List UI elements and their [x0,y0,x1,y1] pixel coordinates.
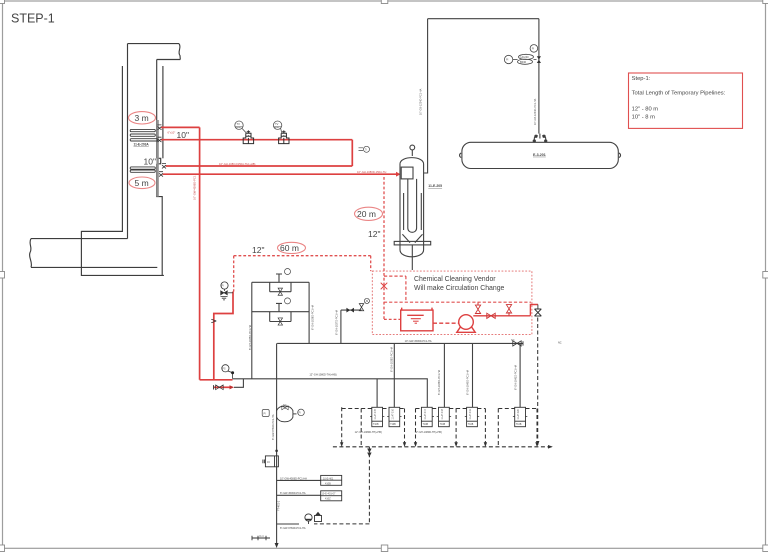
svg-text:410B: 410B [325,482,331,485]
svg-text:10"-GB-1234D-PC1-HA: 10"-GB-1234D-PC1-HA [534,98,537,125]
svg-text:3 m: 3 m [135,113,149,123]
svg-text:T10B: T10B [373,424,379,426]
svg-text:HC240: HC240 [521,55,530,59]
svg-text:Will make Circulation Change: Will make Circulation Change [414,285,505,292]
svg-text:10"-GW-4506D-PC1-HA: 10"-GW-4506D-PC1-HA [405,340,432,343]
svg-text:11-AT-018: 11-AT-018 [441,408,444,419]
svg-text:6"-GH-1039D-PC1-HA: 6"-GH-1039D-PC1-HA [438,370,441,395]
svg-text:11-AT-017: 11-AT-017 [424,408,427,419]
svg-text:11-AT-020: 11-AT-020 [517,408,520,419]
svg-text:PI: PI [264,412,267,415]
svg-text:12": 12" [252,245,264,255]
svg-text:16: 16 [267,461,270,464]
svg-text:10"-GW-4506D-PC1: 10"-GW-4506D-PC1 [193,175,197,200]
svg-text:NC: NC [558,342,562,345]
svg-text:0041: 0041 [274,127,280,129]
svg-text:8"-GW-9784D-PC1-HA: 8"-GW-9784D-PC1-HA [280,527,306,530]
svg-text:8"-GW-4506D-PC1-HA: 8"-GW-4506D-PC1-HA [280,492,306,495]
svg-text:11-AT-016: 11-AT-016 [391,408,394,419]
svg-text:10": 10" [177,130,189,140]
svg-text:11-E-203A: 11-E-203A [134,142,150,146]
svg-text:E-3-201: E-3-201 [533,153,546,157]
svg-text:6"-GH-1036D-PC1-HA: 6"-GH-1036D-PC1-HA [311,305,314,330]
svg-text:12"-GH-1080D-TH(+HB): 12"-GH-1080D-TH(+HB) [309,373,336,376]
svg-text:B040: B040 [520,60,527,64]
svg-text:6"-GH-1038D-PC1-HA: 6"-GH-1038D-PC1-HA [391,347,394,372]
svg-text:6"-GH-1035D-PC1-HA: 6"-GH-1035D-PC1-HA [249,325,252,350]
svg-text:12": 12" [368,229,380,239]
svg-text:10" - 8 m: 10" - 8 m [632,114,655,120]
svg-text:PS: PS [222,367,226,370]
svg-text:10"-GH-1080-D150A-TH(+HB): 10"-GH-1080-D150A-TH(+HB) [219,162,256,166]
svg-text:T10B: T10B [390,424,396,426]
svg-text:PI: PI [222,285,225,288]
svg-text:12"-GH-1080D-TH(+HB): 12"-GH-1080D-TH(+HB) [355,431,382,434]
svg-text:60 m: 60 m [280,243,299,253]
svg-text:T10B: T10B [440,424,446,426]
svg-text:11-AT-019: 11-AT-019 [469,408,472,419]
svg-text:TV: TV [237,122,241,126]
svg-text:8"-GW-9784D-PC1-HA: 8"-GW-9784D-PC1-HA [272,414,275,440]
svg-text:10-E-401: 10-E-401 [323,477,334,480]
svg-text:10"-GH-1080D-150A-TH: 10"-GH-1080D-150A-TH [357,170,386,174]
svg-text:6"x10": 6"x10" [168,131,176,135]
svg-text:6"-GH-1040D-PC1-HA: 6"-GH-1040D-PC1-HA [467,370,470,395]
svg-text:10"-GW-4506D-PC1-HA: 10"-GW-4506D-PC1-HA [280,477,307,480]
svg-text:11-AT-015: 11-AT-015 [374,408,377,419]
svg-text:Total Length of Temporary Pipe: Total Length of Temporary Pipelines: [632,91,726,97]
svg-text:PI: PI [506,59,509,62]
svg-text:0040: 0040 [236,127,242,129]
svg-text:12" - 80 m: 12" - 80 m [632,107,659,113]
svg-text:12"-GH-1080D-TH(+HB): 12"-GH-1080D-TH(+HB) [415,431,442,434]
svg-text:6"-GH-1041D-PC1-HA: 6"-GH-1041D-PC1-HA [515,365,518,390]
svg-text:TI: TI [365,148,368,151]
svg-text:FT-401-1: FT-401-1 [277,500,280,511]
svg-text:NC: NC [511,339,515,342]
svg-text:NC: NC [283,404,287,407]
svg-text:20 m: 20 m [357,209,376,219]
svg-text:T10B: T10B [423,424,429,426]
svg-text:10"-GB-1234D-PC1-HA: 10"-GB-1234D-PC1-HA [420,88,423,115]
svg-text:10": 10" [144,157,156,167]
svg-text:D-4: D-4 [260,535,265,538]
svg-text:TV: TV [275,122,279,126]
svg-text:PI: PI [532,47,535,50]
svg-text:STEP-1: STEP-1 [11,12,55,26]
svg-text:10-E-401-07: 10-E-401-07 [322,493,337,496]
svg-text:11-E-205: 11-E-205 [428,184,442,188]
svg-text:6"-GH-1037D-PC1-HA: 6"-GH-1037D-PC1-HA [335,310,338,335]
svg-text:T10B: T10B [468,424,474,426]
svg-text:Step-1:: Step-1: [632,76,651,82]
svg-text:Chemical Cleaning Vendor: Chemical Cleaning Vendor [414,276,496,283]
svg-text:PI: PI [299,411,302,414]
svg-text:410Z: 410Z [325,498,331,501]
svg-text:T10B: T10B [516,424,522,426]
svg-text:5 m: 5 m [135,178,149,188]
